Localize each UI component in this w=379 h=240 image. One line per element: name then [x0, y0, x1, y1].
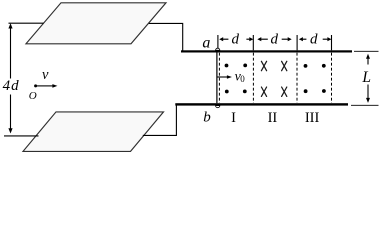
field boundary dashed 3	[296, 53, 298, 103]
dimension tick 4	[331, 35, 333, 50]
dimension 4d line	[8, 23, 12, 133]
wire bottom-right lead to channel	[143, 104, 177, 135]
svg-text:d: d	[232, 32, 240, 48]
velocity arrow v	[37, 84, 57, 88]
dimension tick 2	[252, 35, 254, 50]
wire bottom-left lead	[4, 135, 39, 137]
svg-text:d: d	[310, 32, 318, 48]
d dimension span 2 arrows	[257, 37, 291, 41]
bottom channel plate (thick)	[175, 103, 348, 105]
hole at a	[216, 48, 220, 50]
dimension tick 1	[217, 35, 219, 50]
field boundary dashed 2	[252, 53, 254, 103]
svg-text:d: d	[271, 32, 279, 48]
particle source point	[34, 84, 37, 87]
svg-text:O: O	[29, 90, 37, 102]
field boundary dashed 4	[331, 53, 333, 103]
L dimension extension bottom	[351, 104, 379, 106]
wire top-right lead to channel	[149, 23, 183, 50]
svg-text:L: L	[361, 69, 371, 86]
dimension tick 3	[296, 35, 298, 50]
svg-text:v: v	[42, 67, 49, 83]
svg-text:4d: 4d	[3, 78, 20, 94]
top capacitor plate P1	[26, 3, 166, 44]
wire top-left lead	[9, 22, 44, 24]
B-field region II crosses	[261, 61, 286, 96]
svg-text:III: III	[305, 110, 320, 126]
B-field region I dots	[225, 64, 248, 94]
svg-text:I: I	[231, 110, 236, 126]
svg-text:b: b	[203, 110, 211, 126]
svg-text:II: II	[268, 110, 278, 126]
top channel plate (thick)	[181, 50, 352, 52]
velocity arrow v0	[218, 75, 232, 79]
entrance line ab	[216, 53, 218, 104]
bottom capacitor plate P2	[23, 112, 164, 151]
B-field region III dots	[304, 64, 326, 93]
field boundary dashed 1	[218, 53, 220, 103]
d dimension span 3 arrows	[299, 37, 332, 41]
L dimension extension top	[354, 50, 379, 52]
d dimension span 1 arrows	[219, 37, 253, 41]
svg-text:0: 0	[240, 74, 245, 84]
svg-text:a: a	[202, 35, 210, 52]
L dimension arrows	[366, 54, 370, 103]
hole at b	[216, 106, 220, 108]
